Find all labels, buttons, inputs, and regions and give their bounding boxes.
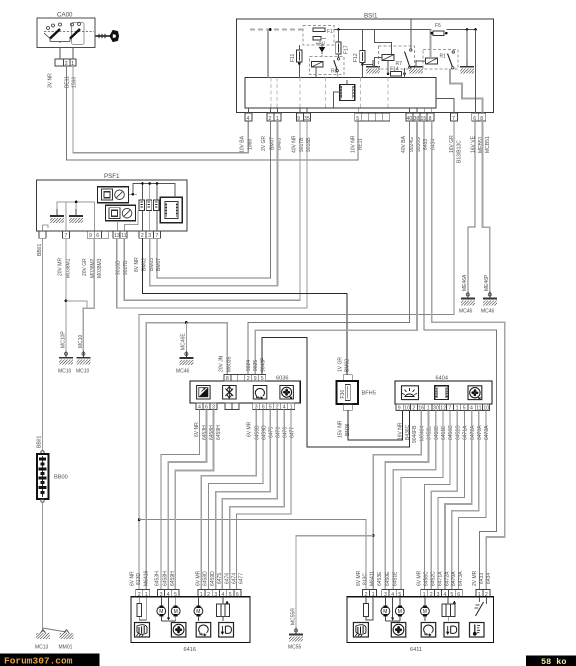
net MC10 : PSF1 pin6 to ground MC10 [66, 238, 94, 374]
svg-text:8: 8 [429, 116, 432, 122]
6411 top labels group1 [356, 570, 375, 586]
svg-text:8: 8 [226, 376, 229, 382]
ground MC55 [288, 608, 303, 651]
6411 icon heated screen [353, 623, 368, 638]
svg-text:6476: 6476 [224, 573, 230, 584]
svg-text:6459D: 6459D [210, 571, 216, 586]
net 6459D to 6416 pin1 [201, 409, 256, 589]
box 6036 [190, 376, 300, 404]
BSI1 pin labels column group 1 [240, 135, 254, 153]
svg-text:20V GR: 20V GR [82, 258, 88, 276]
BSI1 pin labels column group 5 [401, 135, 437, 153]
net 6471A [438, 410, 464, 589]
net 6459D2 to 6416 pin2 [209, 409, 264, 589]
net 6433 : BSI pin15 to 6411 [424, 121, 496, 590]
PSF1 labels 20V GR [82, 258, 103, 278]
box BFH5 with fuse F36 [337, 375, 376, 410]
BSI1 pin labels column group 2 [261, 136, 283, 151]
svg-text:2: 2 [269, 116, 272, 122]
net 6477 to 6416 pin6 [237, 409, 292, 589]
6416 top labels group2 [154, 571, 176, 586]
svg-text:20V MR: 20V MR [58, 258, 64, 276]
net 6473A [459, 410, 486, 589]
svg-text:4: 4 [247, 116, 250, 122]
net 6451E [401, 410, 443, 589]
ground MC13 [35, 630, 50, 651]
svg-text:M038M3: M038M3 [97, 258, 103, 278]
ground inside BSI middle [409, 60, 423, 74]
junction MC46E [185, 321, 188, 324]
net 6450E [393, 410, 436, 589]
svg-text:MC46E: MC46E [181, 333, 187, 350]
BSI1 inner module box [245, 78, 436, 109]
6411 motor bar arrow [385, 597, 399, 621]
svg-text:6477: 6477 [239, 573, 245, 584]
6416 top pin row [136, 590, 241, 597]
6411 motor 1 [381, 597, 390, 617]
6416 icon recirculation [196, 623, 211, 638]
6411 icon recirculation [421, 623, 436, 638]
svg-text:BM02: BM02 [344, 359, 350, 372]
svg-text:6450E: 6450E [385, 571, 391, 586]
6411 top labels group2 [377, 571, 399, 586]
svg-text:1: 1 [276, 116, 279, 122]
key symbol [96, 31, 119, 42]
wire BSI internal grey drop [267, 30, 269, 78]
box 6411 [347, 597, 494, 653]
svg-text:6477: 6477 [290, 427, 296, 438]
svg-text:MC46: MC46 [481, 309, 495, 315]
R7 coil feed wires [375, 20, 411, 67]
svg-text:9: 9 [398, 406, 401, 412]
svg-text:M6411: M6411 [369, 571, 375, 586]
labels 15V NR BN36 [337, 420, 351, 438]
BSI1 pin row [245, 113, 486, 121]
ground inside BSI left [366, 60, 380, 74]
PSF1 unit A (window module with motor) [98, 187, 129, 203]
PSF1 labels 8V NR BM02 BM03 BM07 [134, 257, 162, 272]
svg-text:R1: R1 [440, 54, 447, 60]
6416 icon heated screen [135, 623, 150, 638]
box PSF1 [37, 173, 188, 231]
relay R8 dashed box [310, 57, 345, 78]
BSI1 pin labels column group 6 [449, 135, 463, 163]
6411 top pin numbers [365, 592, 488, 598]
net M6035/M6416 : 6036 pin8, MC46E ground, down to 6416 pin1 [146, 323, 227, 590]
PSF1 labels 20V MR [58, 258, 72, 278]
PSF1 labels 9018B 9017B [116, 260, 130, 275]
svg-text:15V NR: 15V NR [337, 420, 343, 438]
fuse F17 [336, 30, 350, 58]
6036 bottom pin numbers [198, 405, 293, 411]
fuse F5 [430, 23, 447, 36]
component BB00 battery junction box [37, 451, 68, 503]
svg-text:40V BA: 40V BA [401, 135, 407, 153]
net MCB51 : BSI pin8b to ground ME46P [483, 121, 490, 293]
6004 bottom labels [398, 422, 491, 443]
svg-text:9025: 9025 [253, 360, 259, 371]
svg-text:MM01: MM01 [59, 645, 73, 651]
svg-text:6452L: 6452L [427, 426, 433, 440]
svg-text:6459H: 6459H [170, 571, 176, 586]
6036 bottom labels 6V MR group [247, 421, 296, 440]
6411 top labels group4 [472, 570, 492, 586]
svg-text:MC55R: MC55R [290, 608, 296, 625]
svg-text:MC10: MC10 [58, 369, 72, 375]
fuse F12 [353, 30, 373, 78]
svg-text:6V MR: 6V MR [247, 421, 253, 437]
PSF1 relay bank RE [139, 200, 159, 211]
svg-text:M6404: M6404 [419, 425, 425, 441]
svg-text:9: 9 [89, 233, 92, 239]
svg-text:58 ko: 58 ko [541, 657, 567, 666]
svg-text:6452C: 6452C [431, 571, 437, 586]
net 6434 : BSI pin8 to 6411 [432, 121, 505, 590]
svg-text:9: 9 [297, 116, 300, 122]
6416 motor 2 [171, 597, 180, 617]
svg-text:6472A: 6472A [470, 425, 476, 440]
net 6459H [175, 409, 213, 589]
svg-text:MC46: MC46 [176, 369, 190, 375]
watermark Forum307.com [0, 654, 100, 666]
svg-text:6470A: 6470A [451, 571, 457, 586]
svg-text:6472A: 6472A [444, 571, 450, 586]
6416 motor 1 [157, 597, 166, 617]
net 9046F : 6036 pin5 to 6004 pin2 [262, 337, 410, 447]
box 6416 [131, 597, 250, 653]
net B13 : BSI pin7 down-left to bottom [139, 121, 454, 590]
wire BB00 to grounds [43, 502, 67, 632]
PSF1 IC unit [160, 197, 182, 223]
svg-text:6V MR: 6V MR [356, 570, 362, 586]
6411 icon fan [391, 623, 406, 638]
net 9030 : 6036 pin9 to BSI pin38 [255, 121, 417, 375]
PSF1 internal bus wires [43, 182, 176, 231]
svg-text:8V NR: 8V NR [134, 257, 140, 272]
box BSI1 [237, 13, 494, 113]
svg-text:6471A: 6471A [437, 571, 443, 586]
6004 icon fan [468, 386, 482, 400]
svg-text:5: 5 [261, 376, 264, 382]
wire CA00 pin2 to BSI1 pin5 (BE11) [66, 66, 358, 160]
net MC10P : PSF1 pin7 to ground MC10 [58, 238, 73, 374]
svg-text:9024: 9024 [246, 360, 252, 371]
ground ME46A [459, 274, 475, 315]
PSF1 pin row [39, 231, 161, 238]
svg-text:MC10: MC10 [78, 334, 84, 348]
net 6475 to 6416 pin3 [216, 409, 271, 589]
svg-text:2V MR: 2V MR [472, 570, 478, 586]
net BM02 : PSF1 pin2 to BFH5 [142, 238, 346, 375]
svg-text:1: 1 [71, 61, 74, 67]
ground MM01 [59, 630, 74, 651]
svg-text:6V MR: 6V MR [417, 570, 423, 586]
svg-text:PSF1: PSF1 [104, 173, 120, 180]
svg-text:9046FB: 9046FB [412, 425, 418, 443]
svg-text:MC13: MC13 [35, 645, 49, 651]
6036 bottom pin row [196, 403, 295, 410]
svg-text:6434: 6434 [486, 573, 492, 584]
svg-text:2: 2 [65, 61, 68, 67]
svg-text:6V MR: 6V MR [196, 570, 202, 586]
svg-text:F36: F36 [340, 390, 346, 399]
6036 top pin row [224, 375, 266, 382]
6416 flap actuator resistors [217, 597, 230, 621]
net 6458H [168, 409, 206, 589]
svg-text:BE11: BE11 [65, 76, 71, 88]
svg-text:6459D: 6459D [262, 425, 268, 440]
net 6470A [452, 410, 479, 589]
pin stubs below inner box [248, 108, 431, 113]
svg-text:MCB51: MCB51 [485, 136, 491, 153]
svg-text:6450E: 6450E [434, 425, 440, 440]
6036 top labels 9024 9025 9046F [246, 358, 267, 372]
net 6476 to 6416 pin4 [222, 409, 277, 589]
svg-text:Forum307.com: Forum307.com [4, 656, 73, 666]
svg-text:F1: F1 [327, 29, 333, 35]
ignition switch contacts [44, 23, 94, 45]
svg-text:6404: 6404 [436, 376, 448, 382]
svg-text:6451E: 6451E [441, 425, 447, 440]
svg-text:6411: 6411 [410, 647, 422, 653]
net 813C branch to 6411 [139, 520, 366, 590]
svg-text:1V GR: 1V GR [337, 357, 343, 372]
junction B13 branch [138, 518, 141, 521]
svg-text:6036: 6036 [276, 376, 288, 382]
wire CA00 pin1 to BSI1 pin4 (1566) [73, 66, 248, 153]
6416 icon fan [171, 623, 186, 638]
6411 top pin row [363, 590, 490, 597]
ground inside BSI right [460, 30, 474, 74]
svg-text:6473A: 6473A [484, 425, 490, 440]
BSI1 internal top bus [250, 28, 477, 31]
6036 icon air distribution [223, 386, 237, 400]
svg-text:BE11: BE11 [358, 138, 364, 150]
svg-text:38: 38 [414, 116, 420, 122]
PSF1 pin numbers [65, 233, 159, 239]
svg-text:35: 35 [304, 116, 310, 122]
6416 icon air flap [219, 623, 234, 638]
svg-text:6451E: 6451E [393, 571, 399, 586]
BSI1 pin labels column group 4 [351, 135, 364, 153]
svg-text:40V NR: 40V NR [291, 135, 297, 153]
svg-text:ME46P: ME46P [484, 274, 490, 291]
svg-text:6458D: 6458D [203, 571, 209, 586]
svg-text:6459H: 6459H [216, 425, 222, 440]
svg-text:F5: F5 [435, 23, 441, 29]
6416 motor common bar with arrow [161, 597, 175, 621]
svg-text:6: 6 [473, 116, 476, 122]
svg-text:F17: F17 [344, 45, 350, 54]
wire to pin 6 [475, 30, 477, 114]
net BM07 : BSI pin2 to PSF1 pin7 [157, 121, 271, 278]
connector pins of CA00 [55, 48, 76, 67]
svg-text:40: 40 [407, 116, 413, 122]
ground ME46P [481, 274, 497, 315]
svg-text:6470A: 6470A [477, 425, 483, 440]
svg-text:16V NR: 16V NR [398, 422, 404, 440]
fuse F1 dashed box [303, 26, 334, 46]
box 6004 [395, 376, 492, 405]
svg-text:1066: 1066 [248, 139, 254, 150]
svg-text:6473A: 6473A [458, 571, 464, 586]
svg-text:20V JN: 20V JN [218, 355, 224, 372]
svg-text:2: 2 [412, 406, 415, 412]
svg-text:9: 9 [254, 376, 257, 382]
6411 thermistor [475, 597, 487, 616]
6036 icon fan [280, 386, 294, 400]
+BV supply arrow [316, 42, 326, 57]
PSF1 unit B (window module with motor) [106, 205, 136, 221]
6416 resistor element [137, 597, 146, 620]
svg-text:9046F: 9046F [261, 358, 267, 372]
relay R7 dashed box [379, 46, 415, 69]
svg-text:6452C: 6452C [455, 425, 461, 440]
6004 icon resistor block [435, 386, 449, 400]
svg-text:6416: 6416 [184, 647, 196, 653]
net 6456C [424, 410, 450, 589]
svg-text:6475: 6475 [217, 573, 223, 584]
svg-text:6456C: 6456C [448, 425, 454, 440]
svg-text:F12: F12 [353, 53, 359, 62]
PSF1 internal grounds [50, 201, 94, 231]
svg-text:2: 2 [247, 376, 250, 382]
IC chip in inner box [334, 80, 355, 108]
svg-text:7: 7 [452, 116, 455, 122]
net MEB51 : BSI pin6 to ground ME46A [468, 121, 475, 293]
6411 icon thermometer [470, 623, 485, 638]
svg-text:BB01: BB01 [37, 436, 43, 448]
svg-text:+BV: +BV [316, 42, 326, 48]
6036 icon window-lift [197, 386, 211, 400]
box CA00 [37, 12, 95, 48]
fuse F14 [387, 61, 406, 78]
svg-text:15: 15 [421, 116, 427, 122]
BSI1 pin labels column group 3 [291, 135, 312, 153]
6411 icon air flap [444, 623, 459, 638]
net M6404 with MC55R branch [373, 410, 421, 589]
svg-text:813D: 813D [136, 573, 142, 585]
svg-text:3V NR: 3V NR [48, 73, 54, 88]
R1 feed wires [416, 30, 483, 114]
svg-text:BSI1: BSI1 [364, 13, 378, 20]
dashed partition lines in inner box [271, 78, 388, 109]
junction M6404/MC55R [372, 534, 375, 537]
svg-text:10V BA: 10V BA [240, 135, 246, 153]
net 9017B : BSI pin9 to PSF1 pin11 [124, 121, 300, 300]
svg-text:10V NR: 10V NR [351, 135, 357, 153]
svg-text:ME46A: ME46A [462, 274, 468, 291]
net 6472A [445, 410, 472, 589]
svg-text:BFH5: BFH5 [362, 391, 376, 397]
wire MC55R ground branch [296, 536, 373, 629]
BSI1 pin labels column group 7 [470, 135, 491, 153]
6036 top labels 20V JN M6035 [218, 355, 232, 372]
6416 top labels group1 [129, 570, 149, 586]
svg-text:MC46: MC46 [459, 309, 473, 315]
wire inner box to pin7 [436, 98, 454, 113]
6416 top labels group3 [196, 570, 245, 586]
svg-text:M6416: M6416 [144, 570, 150, 586]
svg-text:8: 8 [480, 116, 483, 122]
relay R1 dashed box [423, 50, 458, 70]
svg-text:B436C: B436C [405, 424, 411, 440]
size stamp 58 ko [526, 656, 576, 666]
BSI1 pin numbers [247, 116, 484, 122]
svg-text:B13/B13C: B13/B13C [457, 140, 463, 163]
svg-text:BB00: BB00 [54, 475, 68, 481]
6411 motor 2 [395, 597, 404, 617]
svg-text:2V GR: 2V GR [261, 136, 267, 151]
net 6453H [161, 409, 200, 589]
svg-text:6453E: 6453E [377, 571, 383, 586]
6004 bottom pin row [396, 404, 490, 410]
6036 top pin numbers [226, 376, 264, 382]
6036 icon recirculation [253, 386, 266, 400]
labels 1V GR BM02 [337, 357, 350, 372]
6411 flap actuator resistors [442, 597, 456, 621]
net 6452C [431, 410, 457, 589]
svg-text:6471A: 6471A [463, 425, 469, 440]
fuse F11 [290, 45, 302, 78]
svg-text:MC10P: MC10P [61, 331, 67, 348]
svg-text:MC10: MC10 [76, 369, 90, 375]
6411 resistor element [364, 597, 373, 620]
svg-text:6453H: 6453H [154, 571, 160, 586]
net 9024 : 6036 pin2 to BSI pin40 [248, 121, 409, 375]
svg-text:F11: F11 [290, 54, 296, 62]
net 6452L [385, 410, 428, 589]
svg-text:M6035: M6035 [226, 356, 232, 372]
6416 top pin numbers [138, 592, 239, 598]
svg-text:6433: 6433 [479, 573, 485, 584]
6411 motor 3 [421, 597, 430, 621]
svg-text:MC55: MC55 [288, 645, 302, 651]
6411 top labels group3 [417, 570, 465, 586]
wire MC46E ground drop [176, 323, 193, 375]
6416 motor 3 [194, 597, 203, 621]
svg-text:6456C: 6456C [424, 571, 430, 586]
net BB01 : PSF1 to BB00 battery unit [37, 238, 43, 451]
svg-text:6474: 6474 [232, 573, 238, 584]
svg-text:CA00: CA00 [57, 12, 73, 19]
net 6476b to 6416 pin5 [230, 409, 285, 589]
6004 bottom pin numbers [398, 406, 489, 412]
svg-text:5: 5 [356, 116, 359, 122]
svg-text:M038M2: M038M2 [90, 258, 96, 278]
6004 icon blower [402, 386, 419, 400]
svg-text:6: 6 [96, 233, 99, 239]
6036 bottom labels 6V NR group [194, 422, 222, 440]
net BA03/BM03 : BSI pin1 to PSF1 pin3 [150, 121, 278, 286]
svg-text:6458H: 6458H [162, 571, 168, 586]
wire BFH5 to 6004 pin1 [348, 410, 403, 440]
net 9018B : BSI pin35 to PSF1 pin13 [117, 121, 307, 308]
svg-text:813C: 813C [362, 573, 368, 585]
svg-text:10: 10 [404, 406, 410, 412]
svg-text:6V NR: 6V NR [129, 571, 135, 586]
